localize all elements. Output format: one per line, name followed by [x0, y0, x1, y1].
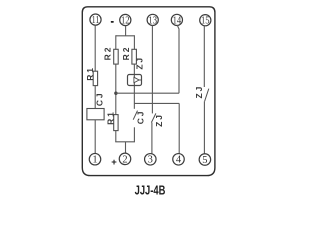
- svg-text:R1: R1: [105, 110, 115, 125]
- svg-text:ZJ: ZJ: [194, 85, 204, 99]
- wire to terminal 2: [125, 142, 127, 154]
- minus polarity mark: [111, 21, 114, 23]
- node junction dot: [114, 92, 117, 95]
- terminal 2: [119, 153, 131, 165]
- svg-text:R1: R1: [85, 66, 95, 81]
- resistor R2 (left): [114, 49, 119, 64]
- wire left branch to R2: [115, 35, 117, 49]
- svg-text:CJ: CJ: [135, 110, 145, 125]
- terminal 11: [90, 14, 101, 26]
- wire CJ to terminal 1: [94, 120, 96, 154]
- svg-text:3: 3: [148, 155, 153, 166]
- wire CJ contact down: [133, 127, 135, 142]
- contact CJ blade: [133, 111, 137, 120]
- svg-text:R2: R2: [102, 46, 112, 61]
- svg-text:CJ: CJ: [94, 91, 104, 106]
- terminal 15: [200, 15, 211, 27]
- terminal 14: [171, 14, 182, 26]
- relay coil triangle stub: [139, 79, 141, 81]
- relay case outline: [82, 7, 215, 176]
- contact ZJ blade (terminal 5): [205, 89, 209, 102]
- wire 11 to R1: [94, 26, 96, 72]
- wire 12 down: [125, 26, 127, 36]
- svg-text:13: 13: [148, 15, 157, 26]
- capacitor CJ box: [87, 109, 104, 120]
- svg-text:15: 15: [201, 16, 210, 27]
- wire R1 to capacitor CJ: [94, 86, 96, 109]
- svg-text:5: 5: [202, 155, 207, 166]
- svg-text:ZJ: ZJ: [134, 56, 144, 70]
- terminal 3: [145, 154, 157, 166]
- wire right branch to R2: [133, 35, 135, 49]
- svg-text:1: 1: [92, 155, 97, 166]
- relay coil U1 box: [128, 75, 142, 86]
- wire R1 down: [115, 131, 117, 142]
- wire top tee bar: [116, 35, 135, 37]
- svg-text:14: 14: [173, 15, 182, 26]
- svg-text:4: 4: [176, 155, 182, 166]
- wire R2 through relay box down: [133, 64, 135, 109]
- svg-text:12: 12: [121, 15, 130, 26]
- wire 15 down: [203, 26, 205, 87]
- contact ZJ blade (terminal 3): [151, 113, 156, 122]
- wire 13 down: [151, 26, 153, 114]
- wire bottom tee bar: [115, 141, 135, 143]
- resistor R1 (left): [93, 71, 97, 85]
- wire bar node to 14: [116, 92, 179, 94]
- wire down to terminal 4: [178, 103, 180, 153]
- resistor R1 (middle): [114, 115, 118, 131]
- svg-text:R2: R2: [121, 46, 131, 61]
- svg-text:+: +: [111, 157, 117, 168]
- svg-text:JJJ-4B: JJJ-4B: [135, 182, 166, 197]
- wire R2 through node to R1: [115, 64, 117, 115]
- terminal 5: [199, 154, 211, 166]
- relay coil triangle: [134, 77, 139, 83]
- svg-text:ZJ: ZJ: [154, 113, 164, 127]
- wire cross bar to terminal 4: [134, 102, 179, 104]
- svg-text:2: 2: [122, 154, 127, 165]
- resistor R2 (right): [132, 49, 137, 64]
- terminal 4: [173, 154, 185, 166]
- terminal 1: [89, 153, 101, 165]
- svg-text:11: 11: [92, 15, 100, 26]
- terminal 12: [120, 14, 131, 26]
- wire contact to terminal 5: [203, 101, 205, 154]
- wire contact to terminal 3: [151, 123, 153, 154]
- terminal 13: [147, 14, 158, 26]
- wire 14 down: [177, 25, 179, 93]
